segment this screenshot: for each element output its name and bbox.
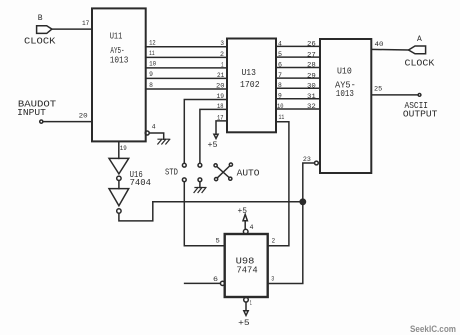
wire B flag to U11 pin 17: [52, 28, 92, 30]
IC U11 box: [92, 8, 146, 141]
svg-text:+5: +5: [238, 319, 250, 328]
svg-text:U10: U10: [337, 65, 352, 76]
inverter U16 first triangle: [109, 158, 129, 174]
IC U10 box: [320, 39, 371, 173]
wire U13 pin8 to U10 pin30: [276, 87, 320, 89]
wire U13 pin11 to U98 pin2: [268, 122, 289, 246]
svg-text:4: 4: [152, 124, 156, 131]
ground (chassis) below switch: [194, 188, 206, 193]
svg-text:40: 40: [375, 41, 384, 48]
wire U11 pin11 to U13 pin2: [146, 56, 227, 58]
wire U13 pin17 to +5: [216, 121, 227, 134]
svg-text:25: 25: [374, 86, 382, 93]
wire U11 pin12 to U13 pin3: [146, 46, 227, 48]
svg-text:9: 9: [278, 93, 282, 100]
svg-text:12: 12: [149, 40, 156, 47]
wire U10 pin23 to junction: [303, 163, 315, 202]
wire U13 pin9 to U10 pin31: [276, 98, 320, 100]
svg-text:6: 6: [278, 61, 282, 68]
node A flag: [409, 46, 426, 54]
svg-text:10: 10: [277, 103, 284, 110]
svg-text:11: 11: [149, 50, 155, 57]
wire U13 pin5 to U10 pin27: [276, 56, 320, 58]
U11 pin4 bubble: [145, 131, 149, 135]
svg-text:2: 2: [272, 238, 276, 245]
IC U98 box: [225, 234, 268, 297]
svg-text:1: 1: [250, 300, 252, 307]
svg-text:19: 19: [120, 145, 127, 152]
+5 arrow (U98 pin1): [244, 311, 248, 316]
svg-text:U11: U11: [110, 31, 123, 42]
svg-text:4: 4: [250, 224, 254, 231]
wire U13 pin18 to STD switch: [200, 109, 227, 163]
svg-text:20: 20: [216, 83, 225, 90]
svg-text:5: 5: [216, 238, 220, 245]
U98 pin1 bubble: [244, 298, 249, 303]
svg-text:3: 3: [271, 275, 274, 282]
svg-text:CLOCK: CLOCK: [24, 36, 56, 46]
svg-text:1702: 1702: [240, 79, 260, 90]
U10 pin23 bubble: [315, 161, 319, 165]
svg-text:26: 26: [307, 41, 316, 48]
svg-text:CLOCK: CLOCK: [405, 59, 435, 69]
svg-text:31: 31: [307, 93, 316, 100]
wire STD switch to U98 pin5: [184, 182, 224, 246]
svg-text:11: 11: [279, 114, 285, 121]
svg-text:B: B: [38, 14, 43, 23]
svg-text:17: 17: [217, 114, 224, 121]
svg-text:7474: 7474: [237, 264, 258, 275]
wire junction to U98 pin3: [268, 202, 303, 284]
svg-text:5: 5: [278, 51, 282, 58]
svg-text:2: 2: [220, 51, 224, 58]
junction node: [300, 199, 305, 204]
IC U13 box: [227, 39, 276, 133]
svg-text:4: 4: [278, 40, 282, 47]
svg-text:1: 1: [221, 61, 224, 68]
wire U98 pin1 to +5: [245, 302, 247, 311]
wire BAUDOT INPUT to U11 pin 20: [40, 120, 43, 123]
STD switch contacts: [182, 163, 186, 167]
svg-text:10: 10: [149, 61, 156, 68]
+5 arrow (pin17): [214, 134, 218, 138]
node B flag: [37, 26, 52, 34]
svg-text:21: 21: [217, 72, 224, 79]
svg-text:32: 32: [307, 103, 316, 110]
svg-text:18: 18: [217, 103, 224, 110]
inverter U16 second triangle: [109, 189, 129, 206]
svg-text:19: 19: [217, 93, 225, 100]
ground (chassis) at U11 pin4: [158, 139, 170, 144]
svg-text:8: 8: [149, 82, 153, 89]
svg-text:AUTO: AUTO: [237, 169, 260, 179]
wire between inverters: [118, 181, 120, 189]
svg-text:20: 20: [79, 113, 88, 120]
svg-text:A: A: [417, 35, 422, 44]
svg-text:3: 3: [220, 40, 224, 47]
svg-text:7404: 7404: [130, 177, 152, 188]
wire U98 pin4 to +5: [244, 221, 246, 229]
svg-text:28: 28: [307, 62, 316, 69]
wire U10 pin40 to A flag: [371, 48, 408, 51]
svg-text:1013: 1013: [110, 54, 129, 65]
wire U11 pin9 to U13 pin21: [146, 77, 227, 79]
svg-text:27: 27: [307, 51, 316, 58]
wire U98 pin6 stub: [185, 282, 221, 284]
svg-text:1013: 1013: [336, 88, 354, 99]
wire U13 pin19 to STD switch: [184, 100, 227, 164]
wire U10 pin25 ASCII OUTPUT: [371, 94, 418, 96]
wire U11 pin10 to U13 pin1: [146, 67, 227, 69]
svg-text:U13: U13: [242, 67, 257, 78]
svg-text:STD: STD: [165, 167, 178, 177]
wire U13 pin7 to U10 pin29: [276, 77, 320, 79]
svg-text:9: 9: [149, 71, 153, 78]
wire U11 pin19 to inverter: [118, 141, 120, 158]
svg-text:+5: +5: [238, 207, 248, 216]
svg-text:30: 30: [307, 83, 316, 90]
svg-text:17: 17: [82, 20, 89, 27]
AUTO crossover switch: [214, 164, 217, 167]
svg-text:29: 29: [307, 72, 316, 79]
svg-text:OUTPUT: OUTPUT: [403, 109, 438, 119]
svg-text:8: 8: [278, 82, 282, 89]
svg-text:23: 23: [303, 156, 311, 163]
svg-text:SeekIC.com: SeekIC.com: [410, 324, 456, 335]
wire U11 pin4 to ground: [149, 133, 164, 139]
wire U11 pin8 to U13 pin20: [146, 88, 227, 90]
wire switch contact to ground: [199, 182, 201, 188]
+5 arrow (U98 pin4): [243, 214, 247, 220]
wire main horizontal node: [153, 201, 303, 203]
wire U13 pin10 to U10 pin32: [276, 108, 320, 110]
wire U13 pin6 to U10 pin28: [276, 67, 320, 69]
wire U13 pin4 to U10 pin26: [276, 45, 320, 47]
svg-text:+5: +5: [208, 141, 218, 150]
wire inverter output to main node: [119, 202, 153, 221]
svg-text:6: 6: [213, 276, 218, 283]
svg-text:7: 7: [278, 72, 282, 79]
U98 pin4 bubble: [243, 229, 248, 234]
svg-text:INPUT: INPUT: [17, 108, 46, 118]
